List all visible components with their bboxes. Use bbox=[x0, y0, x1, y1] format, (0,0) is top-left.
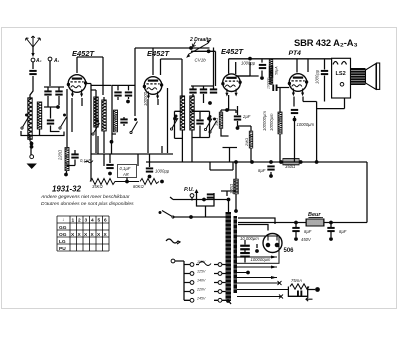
svg-text:125V: 125V bbox=[197, 270, 206, 274]
svg-text:E452T: E452T bbox=[147, 49, 171, 58]
svg-text:1000µµ: 1000µµ bbox=[241, 61, 256, 66]
svg-text:A₁: A₁ bbox=[53, 58, 60, 64]
svg-text:10000µm: 10000µm bbox=[269, 113, 274, 131]
svg-text:3: 3 bbox=[85, 218, 88, 224]
svg-text:PU: PU bbox=[59, 246, 66, 252]
svg-text:50µA: 50µA bbox=[275, 66, 279, 75]
svg-text:220V: 220V bbox=[196, 288, 206, 292]
svg-text:1MΩ: 1MΩ bbox=[215, 118, 219, 126]
svg-text:0,1µF: 0,1µF bbox=[80, 158, 91, 163]
svg-text:PT4: PT4 bbox=[289, 50, 302, 57]
svg-text:1000µµ: 1000µµ bbox=[155, 169, 170, 174]
svg-text:Beur: Beur bbox=[308, 212, 321, 218]
svg-text:LG: LG bbox=[59, 239, 66, 245]
svg-text:1: 1 bbox=[72, 218, 75, 224]
svg-text:100000µm: 100000µm bbox=[262, 111, 267, 131]
svg-text:E452T: E452T bbox=[72, 49, 96, 58]
svg-text:8µF: 8µF bbox=[258, 168, 266, 173]
svg-text:4: 4 bbox=[91, 218, 94, 224]
svg-text:SBR 432 A₂-A₃: SBR 432 A₂-A₃ bbox=[294, 37, 358, 48]
svg-text:10000µm: 10000µm bbox=[297, 122, 315, 127]
svg-text:0,1µF: 0,1µF bbox=[120, 166, 131, 171]
svg-text:350Ω: 350Ω bbox=[285, 164, 296, 169]
svg-text:2 Draaito: 2 Draaito bbox=[189, 37, 211, 43]
svg-text:D'autres données ne sont plus: D'autres données ne sont plus disponible… bbox=[41, 201, 134, 207]
svg-text:P.U.: P.U. bbox=[184, 187, 194, 193]
svg-text:245V: 245V bbox=[196, 296, 206, 300]
svg-text:100000µm: 100000µm bbox=[251, 257, 271, 262]
svg-text:5: 5 bbox=[98, 218, 101, 224]
svg-text:2µF: 2µF bbox=[242, 114, 251, 119]
svg-text:140V: 140V bbox=[197, 279, 206, 283]
svg-text:220Ω: 220Ω bbox=[58, 149, 63, 161]
svg-text:10.000µm: 10.000µm bbox=[240, 236, 259, 241]
svg-text:450V: 450V bbox=[301, 237, 312, 242]
svg-text:A₂: A₂ bbox=[35, 58, 42, 64]
svg-text:506: 506 bbox=[284, 248, 295, 254]
svg-text:GG: GG bbox=[59, 225, 67, 231]
svg-text:1931-32: 1931-32 bbox=[52, 185, 82, 194]
svg-text:CV1b: CV1b bbox=[195, 58, 207, 63]
svg-text:110V: 110V bbox=[197, 260, 206, 264]
svg-text:↓: ↓ bbox=[62, 218, 64, 223]
svg-text:6: 6 bbox=[104, 218, 107, 224]
svg-text:8µF: 8µF bbox=[304, 229, 312, 234]
svg-text:Andere gegevens niet meer besc: Andere gegevens niet meer beschikbaar bbox=[40, 194, 130, 200]
svg-text:E452T: E452T bbox=[221, 47, 245, 56]
svg-text:OG: OG bbox=[59, 232, 67, 238]
svg-text:100000: 100000 bbox=[143, 91, 148, 106]
svg-text:100000: 100000 bbox=[267, 78, 271, 89]
svg-text:8µF: 8µF bbox=[339, 229, 347, 234]
svg-text:2MΩ: 2MΩ bbox=[245, 138, 249, 147]
svg-text:80KΩ: 80KΩ bbox=[133, 184, 144, 189]
svg-text:100Ω: 100Ω bbox=[229, 183, 234, 194]
svg-text:2: 2 bbox=[78, 218, 81, 224]
svg-text:75mA: 75mA bbox=[291, 278, 302, 283]
svg-text:1000µµ: 1000µµ bbox=[315, 69, 320, 84]
svg-text:35KΩ: 35KΩ bbox=[92, 184, 103, 189]
svg-text:AR: AR bbox=[122, 172, 129, 177]
svg-text:LS2: LS2 bbox=[336, 71, 346, 77]
